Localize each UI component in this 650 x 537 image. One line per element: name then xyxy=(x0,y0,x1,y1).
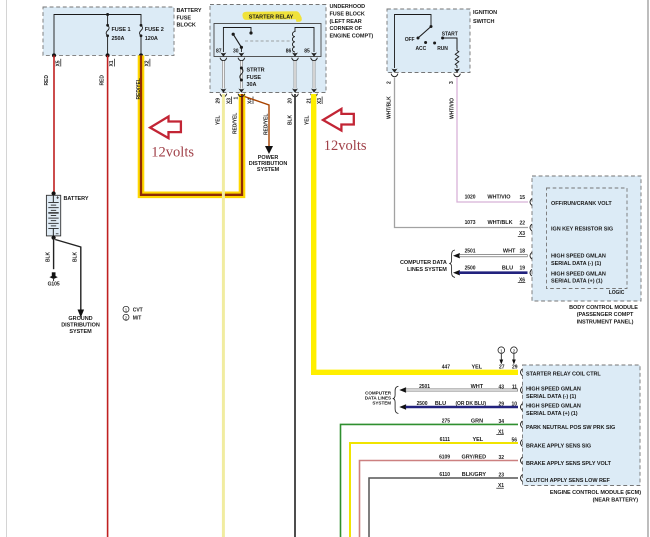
body control module box xyxy=(532,176,641,301)
engine control module box xyxy=(523,365,641,486)
battery fuse block box xyxy=(43,7,174,55)
svg-text:20: 20 xyxy=(287,98,293,104)
ECM entry pin 29/10 xyxy=(521,404,523,411)
svg-text:1: 1 xyxy=(500,348,503,354)
svg-text:WHT: WHT xyxy=(503,248,516,254)
svg-text:HIGH SPEED GMLAN: HIGH SPEED GMLAN xyxy=(551,254,606,260)
svg-text:HIGH SPEED GMLAN: HIGH SPEED GMLAN xyxy=(526,387,581,393)
exit pin labels 1 X4 xyxy=(234,97,254,105)
relay K starter relay box xyxy=(214,24,321,57)
connector dot X1 xyxy=(106,53,116,66)
svg-text:6109: 6109 xyxy=(439,455,450,461)
svg-text:YEL: YEL xyxy=(216,115,222,125)
exit pin labels 20 21 X3 xyxy=(287,97,323,105)
svg-text:ENGINE COMPT): ENGINE COMPT) xyxy=(330,34,374,40)
svg-text:WHT/VIO: WHT/VIO xyxy=(450,98,456,119)
svg-text:SERIAL DATA (-) (1): SERIAL DATA (-) (1) xyxy=(551,261,601,267)
ignition position labels xyxy=(405,32,458,53)
svg-text:(OR DK BLU): (OR DK BLU) xyxy=(455,401,486,407)
ECM entry pin 56 xyxy=(521,440,523,447)
svg-text:HIGH SPEED GMLAN: HIGH SPEED GMLAN xyxy=(526,404,581,410)
svg-text:SWITCH: SWITCH xyxy=(473,19,494,25)
internal gray wires below relay xyxy=(223,61,314,89)
svg-text:FUSE BLOCK: FUSE BLOCK xyxy=(330,11,365,17)
svg-text:STARTER RELAY: STARTER RELAY xyxy=(249,15,294,21)
fuse F2 120A xyxy=(140,24,164,42)
svg-text:29: 29 xyxy=(216,98,222,104)
wire YEL pin21 to ECM starter relay coil ctrl xyxy=(305,94,518,372)
svg-text:LINES SYSTEM: LINES SYSTEM xyxy=(407,267,447,273)
svg-text:BLK: BLK xyxy=(287,114,293,125)
wire WHT/VIO ign pin3 to BCM xyxy=(450,78,528,203)
wire WHT data line to BCM xyxy=(453,248,528,258)
svg-text:FUSE: FUSE xyxy=(247,75,262,81)
wire BLU data line to BCM xyxy=(453,265,528,283)
svg-text:INSTRUMENT PANEL): INSTRUMENT PANEL) xyxy=(577,319,634,325)
svg-text:23: 23 xyxy=(499,473,505,479)
wire GRN to ECM xyxy=(341,419,519,537)
ground G105 xyxy=(48,272,60,287)
svg-text:BODY CONTROL MODULE: BODY CONTROL MODULE xyxy=(569,305,638,311)
svg-text:275: 275 xyxy=(442,419,450,425)
svg-text:19: 19 xyxy=(520,266,526,272)
svg-text:YEL: YEL xyxy=(472,437,483,443)
wire BLU data line to ECM xyxy=(406,401,518,407)
svg-text:2501: 2501 xyxy=(419,384,430,390)
svg-text:START: START xyxy=(442,32,458,38)
svg-text:OFF: OFF xyxy=(405,37,415,43)
BCM entry pin 15 xyxy=(530,199,532,206)
svg-text:RED/YEL: RED/YEL xyxy=(136,78,142,99)
svg-text:SERIAL DATA (+) (1): SERIAL DATA (+) (1) xyxy=(551,279,603,285)
battery xyxy=(46,195,60,236)
wire BLK battery to ground G105 xyxy=(46,238,54,270)
wire YEL 6111 to ECM xyxy=(350,437,518,537)
svg-text:OFF/RUN/CRANK VOLT: OFF/RUN/CRANK VOLT xyxy=(551,201,612,207)
svg-text:CORNER OF: CORNER OF xyxy=(330,26,363,32)
computer data lines label BCM xyxy=(400,250,455,277)
svg-text:ENGINE CONTROL MODULE (ECM): ENGINE CONTROL MODULE (ECM) xyxy=(550,490,641,496)
svg-text:ACC: ACC xyxy=(416,46,427,52)
svg-text:447: 447 xyxy=(442,364,450,370)
wire bus inside battery fuse block xyxy=(54,13,141,55)
svg-text:FUSE 2: FUSE 2 xyxy=(145,27,164,33)
computer data lines label ECM xyxy=(365,390,392,405)
svg-text:WHT/BLK: WHT/BLK xyxy=(487,220,512,226)
ground distribution system label xyxy=(61,316,100,335)
svg-text:2500: 2500 xyxy=(417,401,428,407)
page edge line right xyxy=(647,0,649,537)
connector dot X2 xyxy=(139,53,151,66)
svg-text:86: 86 xyxy=(286,48,292,54)
relay pin labels 87 30 86 85 xyxy=(216,48,310,54)
wire WHT/BLK ign pin2 to BCM xyxy=(387,78,528,228)
svg-text:STARTER RELAY COIL CTRL: STARTER RELAY COIL CTRL xyxy=(526,371,601,377)
svg-text:FUSE 1: FUSE 1 xyxy=(112,27,131,33)
svg-text:120A: 120A xyxy=(145,36,158,42)
svg-text:34: 34 xyxy=(499,419,505,425)
svg-text:29: 29 xyxy=(499,402,505,408)
svg-text:29: 29 xyxy=(512,364,518,370)
svg-text:250A: 250A xyxy=(112,36,125,42)
body control module label xyxy=(569,305,638,325)
svg-text:RED/YEL: RED/YEL xyxy=(233,113,239,134)
relay terminal connectors xyxy=(220,53,317,61)
BCM entry pin 19 xyxy=(530,269,532,276)
wire BLK/GRY to ECM xyxy=(369,472,518,537)
starter relay highlight xyxy=(242,11,301,20)
svg-text:12volts: 12volts xyxy=(324,138,367,154)
svg-text:DISTRIBUTION: DISTRIBUTION xyxy=(61,323,100,329)
ECM entry pin 27/29 xyxy=(521,369,523,376)
node junction at battery positive xyxy=(52,191,56,195)
ignition switch box xyxy=(387,9,470,73)
svg-text:IGNITION: IGNITION xyxy=(473,10,497,16)
wire RED/YEL U-shape from X2 to relay exit xyxy=(136,55,242,194)
svg-text:WHT/VIO: WHT/VIO xyxy=(487,195,511,201)
ECM entry pin 43/11 xyxy=(521,387,523,394)
power distribution system label xyxy=(249,155,288,173)
svg-text:12volts: 12volts xyxy=(151,144,194,160)
BCM logic inner box xyxy=(547,188,628,289)
svg-text:BLK: BLK xyxy=(73,251,79,262)
svg-text:COMPUTER DATA: COMPUTER DATA xyxy=(400,260,447,266)
ECM entry pin 34 xyxy=(521,421,523,428)
engine control module label xyxy=(550,490,641,503)
svg-text:15: 15 xyxy=(520,195,526,201)
svg-text:1: 1 xyxy=(234,97,240,100)
svg-text:YEL: YEL xyxy=(471,364,482,370)
wire BLK pin20 down off page xyxy=(287,94,295,537)
svg-text:UNDERHOOD: UNDERHOOD xyxy=(330,4,366,10)
resistor in ignition switch xyxy=(455,38,459,68)
svg-text:CVT: CVT xyxy=(133,308,143,314)
svg-text:27: 27 xyxy=(499,364,505,370)
node junction at battery negative xyxy=(52,236,56,240)
wire RED/YEL branch to power distribution xyxy=(245,97,274,155)
svg-text:GRY/RED: GRY/RED xyxy=(461,455,486,461)
svg-text:BLU: BLU xyxy=(435,401,446,407)
svg-text:SERIAL DATA (+) (1): SERIAL DATA (+) (1) xyxy=(526,411,578,417)
svg-text:G105: G105 xyxy=(48,282,60,288)
ignition switch internals xyxy=(395,15,458,69)
connector dot X5 xyxy=(52,53,62,66)
svg-text:6111: 6111 xyxy=(440,437,451,443)
svg-text:BRAKE APPLY SENS SIG: BRAKE APPLY SENS SIG xyxy=(526,444,591,450)
svg-text:SERIAL DATA (-) (1): SERIAL DATA (-) (1) xyxy=(526,394,576,400)
svg-text:10: 10 xyxy=(512,402,518,408)
svg-text:STRTR: STRTR xyxy=(247,68,265,74)
svg-text:LOGIC: LOGIC xyxy=(609,290,625,296)
wire WHT data line to ECM xyxy=(406,384,518,390)
svg-text:1020: 1020 xyxy=(465,195,476,201)
svg-text:22: 22 xyxy=(520,221,526,227)
ECM entry pin 32 xyxy=(521,457,523,464)
wire labels 1073 WHT/BLK 22 X3 xyxy=(465,220,526,237)
svg-text:BATTERY: BATTERY xyxy=(177,8,202,14)
svg-text:SYSTEM: SYSTEM xyxy=(69,329,92,335)
svg-text:32: 32 xyxy=(499,455,505,461)
svg-text:WHT/BLK: WHT/BLK xyxy=(387,96,393,119)
ignition exit connectors pins 2 3 xyxy=(387,69,461,85)
svg-text:11: 11 xyxy=(512,385,517,391)
svg-text:30: 30 xyxy=(233,48,239,54)
wire GRY/RED to ECM xyxy=(360,455,519,537)
svg-text:PARK NEUTRAL POS SW PRK SIG: PARK NEUTRAL POS SW PRK SIG xyxy=(526,425,615,431)
brace and arrow WHT row xyxy=(393,386,406,413)
svg-text:87: 87 xyxy=(216,48,222,54)
battery fuse block label xyxy=(177,8,202,29)
wire labels 1020 WHT/VIO 15 xyxy=(465,195,526,201)
svg-text:2500: 2500 xyxy=(465,265,476,271)
page edge line left xyxy=(6,0,8,537)
ignition switch label xyxy=(473,10,497,25)
svg-text:RED: RED xyxy=(44,75,50,86)
svg-text:M/T: M/T xyxy=(133,316,141,322)
svg-text:RED/YEL: RED/YEL xyxy=(264,114,270,135)
svg-text:85: 85 xyxy=(304,48,310,54)
12 volts arrow left xyxy=(150,117,181,139)
svg-text:HIGH SPEED GMLAN: HIGH SPEED GMLAN xyxy=(551,271,606,277)
relay linkage dashed line xyxy=(245,40,291,42)
svg-text:IGN KEY RESISTOR SIG: IGN KEY RESISTOR SIG xyxy=(551,227,613,233)
svg-text:56: 56 xyxy=(512,438,518,444)
fuse F1 250A xyxy=(106,24,130,42)
svg-text:6110: 6110 xyxy=(439,472,450,478)
svg-text:2: 2 xyxy=(387,81,393,84)
svg-text:+: + xyxy=(56,196,59,202)
wire labels 447 YEL 27 29 xyxy=(442,364,518,370)
underhood fuse block label xyxy=(330,4,374,40)
svg-text:2501: 2501 xyxy=(465,248,476,254)
svg-text:30A: 30A xyxy=(247,82,257,88)
svg-text:WHT: WHT xyxy=(471,384,484,390)
note circled 1 and 2 above pins xyxy=(498,347,517,365)
svg-text:RUN: RUN xyxy=(437,46,448,52)
wire BLK battery to ground distribution xyxy=(55,240,84,318)
svg-text:GROUND: GROUND xyxy=(68,316,92,322)
note 1 CVT 2 M/T xyxy=(123,306,143,321)
12 volts arrow right xyxy=(323,109,354,131)
underhood fuse block box xyxy=(210,5,326,93)
svg-text:BRAKE APPLY SENS SPLY VOLT: BRAKE APPLY SENS SPLY VOLT xyxy=(526,461,612,467)
starter fuse 30A xyxy=(240,67,265,89)
svg-text:GRN: GRN xyxy=(471,419,483,425)
svg-text:3: 3 xyxy=(449,81,455,84)
svg-text:(NEAR BATTERY): (NEAR BATTERY) xyxy=(593,498,639,504)
BCM entry pin 18 xyxy=(530,252,532,259)
wire RED from X1 down off page xyxy=(99,55,107,537)
ECM entry pin 23 xyxy=(521,475,523,482)
exit pin labels 29 X3 xyxy=(216,97,233,105)
svg-text:RED: RED xyxy=(99,75,105,86)
wire YEL pin29 down off page xyxy=(216,94,224,537)
svg-text:YEL: YEL xyxy=(305,115,311,125)
svg-text:BLOCK: BLOCK xyxy=(177,23,196,29)
BCM entry pin 22 xyxy=(530,224,532,231)
svg-text:2: 2 xyxy=(513,348,516,354)
fuse block exit connectors xyxy=(220,89,317,97)
svg-text:BLK/GRY: BLK/GRY xyxy=(462,472,487,478)
svg-text:CLUTCH APPLY SENS LOW REF: CLUTCH APPLY SENS LOW REF xyxy=(526,478,610,484)
svg-text:SYSTEM: SYSTEM xyxy=(257,167,280,173)
wire RED from X5 to battery xyxy=(44,55,54,193)
svg-text:43: 43 xyxy=(499,385,505,391)
svg-text:FUSE: FUSE xyxy=(177,15,192,21)
svg-text:BATTERY: BATTERY xyxy=(64,196,89,202)
relay coil xyxy=(292,28,314,53)
svg-text:BLK: BLK xyxy=(46,251,52,262)
relay switch contacts 87 / 30 xyxy=(223,28,252,53)
svg-text:(PASSENGER COMPT: (PASSENGER COMPT xyxy=(577,312,634,318)
brace and arrow BLU row xyxy=(399,404,406,409)
svg-text:SYSTEM: SYSTEM xyxy=(372,401,391,406)
svg-text:BLU: BLU xyxy=(502,265,513,271)
svg-text:(LEFT REAR: (LEFT REAR xyxy=(330,19,362,25)
svg-text:1073: 1073 xyxy=(465,220,476,226)
svg-text:18: 18 xyxy=(520,249,526,255)
